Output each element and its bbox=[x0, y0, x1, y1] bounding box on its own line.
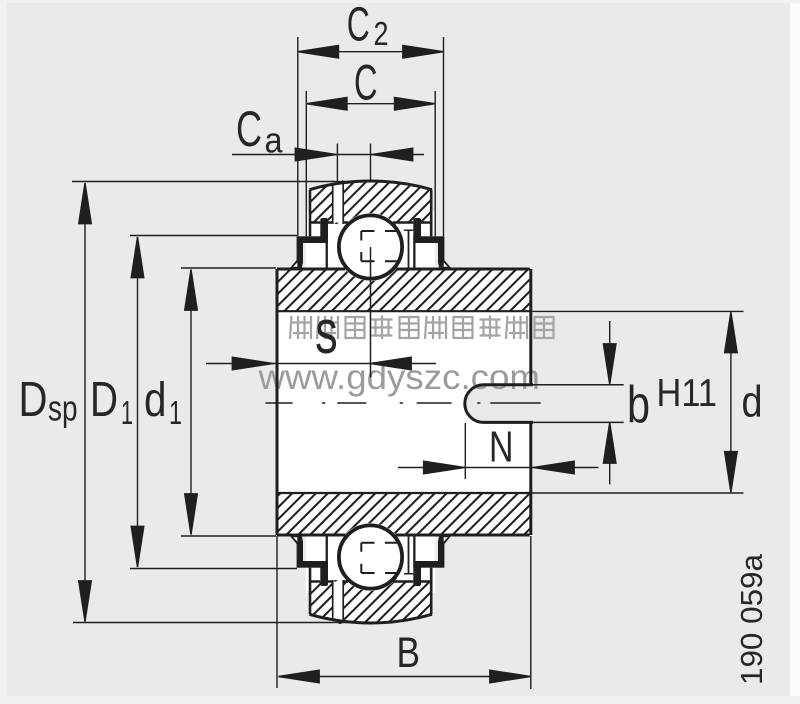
outer-ring left face lower ext (bottom) bbox=[309, 568, 312, 614]
C2 dimension bbox=[298, 37, 444, 236]
seal plate bottom-right bbox=[413, 561, 444, 568]
svg-text:sp: sp bbox=[48, 388, 78, 429]
seal leg and wedge bottom-right bbox=[438, 536, 451, 561]
keyway slot fill bbox=[465, 385, 533, 423]
sleeve top edge bbox=[277, 268, 530, 271]
band boundary lines bbox=[277, 311, 530, 493]
hatch: sleeve bottom band bbox=[276, 493, 532, 537]
dashed squares in balls bbox=[361, 231, 397, 261]
outer ring bore lines bottom bbox=[309, 580, 433, 582]
right leg + wedge bbox=[438, 243, 451, 268]
seals / black parts (bottom, mirror) bbox=[290, 536, 452, 614]
white notch top-left wedge bbox=[293, 262, 297, 266]
C dimension bbox=[306, 91, 435, 236]
svg-text:b: b bbox=[627, 376, 650, 434]
seal lip column bottom-right bbox=[413, 561, 421, 586]
d1 dimension bbox=[181, 268, 276, 536]
ball (bottom) bbox=[339, 525, 402, 588]
watermark chinese characters (approximated glyphs) bbox=[290, 316, 554, 340]
outer ring bottom white bbox=[310, 582, 433, 623]
d dimension bbox=[532, 311, 744, 493]
bearing mid white strips (top and bottom sections) bbox=[306, 211, 435, 269]
left leg + wedge bbox=[290, 243, 303, 268]
svg-text:190 059a: 190 059a bbox=[734, 553, 769, 685]
svg-text:d: d bbox=[742, 378, 763, 427]
sleeve right face (gap at slot) bbox=[529, 269, 532, 535]
hatch: outer ring bottom bbox=[305, 578, 435, 626]
seal plate bottom-left bbox=[297, 561, 328, 568]
Dsp dimension bbox=[72, 182, 370, 623]
dimension lines and arrows bbox=[72, 37, 744, 689]
S dimension bbox=[206, 363, 436, 365]
seal lip column bottom-left bbox=[320, 561, 328, 586]
svg-text:2: 2 bbox=[374, 16, 389, 53]
B dimension bbox=[277, 536, 531, 689]
svg-text:D: D bbox=[19, 373, 48, 427]
outer-ring right face lower ext bbox=[430, 190, 433, 236]
center dash-dot line bbox=[266, 402, 541, 404]
outer-ring right face lower ext (bottom) bbox=[430, 568, 433, 614]
svg-text:a: a bbox=[265, 120, 284, 161]
main outlines bbox=[266, 181, 624, 623]
slit edges bottom bbox=[333, 580, 344, 621]
svg-text:H11: H11 bbox=[657, 372, 718, 415]
seal leg and wedge bottom-left bbox=[290, 536, 303, 561]
inner thin lines right blocks bbox=[408, 230, 410, 574]
svg-text:C: C bbox=[354, 55, 378, 111]
outer-ring left face lower ext bbox=[309, 190, 312, 236]
keyway slot outline bbox=[465, 385, 533, 423]
D1 dimension bbox=[130, 236, 297, 569]
inner-ring face bar bottom-right bbox=[413, 536, 415, 561]
sleeve bottom edge bbox=[277, 534, 530, 537]
hatch: sleeve top band bbox=[276, 268, 532, 312]
svg-text:1: 1 bbox=[121, 394, 133, 431]
sleeve left face bbox=[276, 269, 279, 535]
right top plate bbox=[413, 236, 444, 243]
b dimension bbox=[609, 321, 611, 484]
inner-ring face bar bottom-left bbox=[326, 536, 328, 561]
svg-text:S: S bbox=[315, 311, 337, 363]
inner ring sleeve body (white) bbox=[276, 268, 533, 537]
svg-text:1: 1 bbox=[169, 394, 182, 431]
outer ring top white bbox=[310, 181, 433, 222]
svg-text:C: C bbox=[236, 101, 262, 157]
outer ring arcs bbox=[310, 181, 433, 190]
left bump+column bbox=[320, 218, 328, 243]
outer ring bore lines top bbox=[309, 221, 433, 223]
slot thin extensions bbox=[533, 385, 624, 423]
left inner-ring face bar bbox=[326, 243, 328, 268]
hatch: outer ring top bbox=[305, 178, 435, 226]
svg-text:d: d bbox=[144, 374, 167, 427]
svg-text:N: N bbox=[489, 423, 514, 472]
left top plate bbox=[297, 236, 328, 243]
right inner-ring face bar bbox=[413, 243, 415, 268]
ball center vertical line (top ball) bbox=[370, 247, 372, 378]
right bump+column bbox=[413, 218, 421, 243]
white notch bottom-left wedge bbox=[293, 537, 297, 541]
ball (top) bbox=[339, 215, 402, 278]
seals / black parts (top) bbox=[290, 190, 452, 268]
svg-text:D: D bbox=[90, 373, 118, 427]
slit edges top bbox=[333, 183, 344, 224]
svg-text:C: C bbox=[347, 0, 370, 52]
svg-text:B: B bbox=[397, 629, 421, 677]
white notch bottom-right wedge bbox=[444, 537, 448, 541]
white notch top-right wedge bbox=[444, 262, 448, 266]
N dimension bbox=[398, 467, 598, 469]
Ca dimension bbox=[337, 144, 370, 185]
